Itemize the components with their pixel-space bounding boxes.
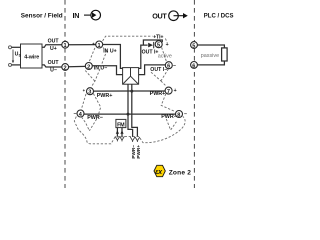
wire IN U+ into isolator	[103, 45, 123, 69]
svg-text:OUT: OUT	[48, 39, 60, 45]
FM pin arrows	[116, 130, 119, 134]
wire OUT U+ from box to terminal 1	[42, 45, 62, 48]
dash into T6 apex	[151, 72, 161, 81]
svg-text:Zone 2: Zone 2	[169, 169, 192, 176]
svg-text:−: −	[73, 111, 76, 117]
terminal 6 device	[165, 62, 172, 69]
sensor terminal top	[9, 46, 12, 49]
svg-text:passive: passive	[201, 53, 219, 59]
terminal 8 device	[176, 111, 183, 118]
4-wire sensor box	[21, 44, 43, 68]
power rail - from isolator	[128, 84, 133, 137]
wire PWR+ T3 to T7	[93, 90, 165, 92]
terminal 4 device	[77, 110, 84, 117]
terminal 6 plc side	[191, 62, 198, 69]
svg-text:IN U+: IN U+	[103, 49, 116, 55]
svg-text:PWR+: PWR+	[150, 91, 166, 97]
svg-text:1: 1	[64, 43, 67, 49]
dash after TI+ to T5	[165, 39, 167, 43]
svg-text:6: 6	[192, 63, 195, 69]
terminal 1 device	[96, 41, 103, 48]
FM box	[116, 119, 126, 127]
svg-text:+TI+: +TI+	[153, 35, 163, 41]
svg-text:OUT: OUT	[48, 60, 60, 66]
wire OUT U- from box to terminal 2	[42, 65, 62, 67]
svg-text:+: +	[166, 42, 169, 48]
wire sensor top to box	[12, 46, 21, 48]
svg-text:6: 6	[167, 64, 170, 70]
svg-text:−: −	[173, 63, 176, 69]
terminal 2 field side	[62, 64, 69, 71]
dash T1-T2	[89, 48, 95, 61]
wire field T1 to device T1	[69, 44, 96, 46]
svg-text:PLC / DCS: PLC / DCS	[204, 13, 234, 19]
svg-text:7: 7	[167, 89, 170, 95]
svg-text:U−: U−	[50, 68, 57, 74]
OUT flow symbol	[169, 11, 188, 21]
terminal 5 device	[155, 41, 162, 48]
svg-text:PWR+: PWR+	[136, 145, 141, 159]
IN flow symbol	[84, 10, 100, 20]
svg-text:OUT I+: OUT I+	[142, 49, 159, 55]
terminal 7 device	[165, 87, 172, 94]
zone separator left (dashed)	[64, 0, 66, 188]
dashed connector outlines	[74, 36, 185, 144]
dash apex to T7	[161, 81, 167, 87]
resistor load	[222, 48, 228, 61]
test jack symbol	[148, 43, 153, 48]
svg-text:2: 2	[87, 64, 90, 70]
svg-text:−: −	[184, 112, 187, 118]
dash T3 right side	[89, 94, 100, 131]
dash T3-T4	[81, 94, 86, 110]
svg-text:IN: IN	[73, 11, 80, 20]
junction PWR+	[130, 90, 133, 93]
svg-text:OUT I−: OUT I−	[150, 67, 167, 73]
svg-text:PWR−: PWR−	[161, 114, 177, 120]
svg-text:U+: U+	[50, 46, 57, 52]
wire OUT I+ from isolator to test jack	[139, 45, 148, 68]
wire IN U- into isolator	[92, 66, 122, 75]
Ex hexagon	[154, 165, 165, 176]
plc load wires	[197, 45, 224, 65]
wire field T2 to device T2	[69, 65, 86, 67]
wire PWR- T4 to T8	[84, 113, 176, 115]
svg-text:8: 8	[177, 112, 180, 118]
dash T4 to V apex	[82, 117, 90, 131]
svg-text:FM: FM	[117, 122, 125, 128]
svg-text:1: 1	[98, 43, 101, 49]
dash T2 to junction	[85, 71, 95, 82]
svg-text:Sensor / Field: Sensor / Field	[21, 13, 63, 20]
terminal 5 plc side	[191, 42, 198, 49]
FM pin lines	[116, 128, 118, 137]
TI+ loop wire	[143, 40, 162, 45]
dash T1 right side	[91, 48, 106, 87]
dash T6 to apex	[161, 69, 169, 81]
power rail + from isolator	[132, 84, 138, 137]
svg-text:OUT: OUT	[152, 12, 167, 21]
dash T5-T6	[162, 47, 167, 61]
svg-text:5: 5	[192, 43, 195, 49]
isolator internal symbol	[123, 68, 138, 84]
bus power sockets	[130, 137, 135, 142]
isolator U1 body	[123, 68, 139, 85]
wire sensor bottom to box	[12, 64, 21, 66]
dash TI+ link	[103, 36, 153, 41]
svg-text:2: 2	[64, 65, 67, 71]
wire OUT I- from isolator to T6	[139, 65, 166, 75]
dash T7-T8 V	[161, 94, 175, 112]
Us arrow	[12, 50, 14, 62]
svg-text:+: +	[174, 88, 177, 94]
sensor terminal bottom	[9, 63, 12, 66]
FM sockets	[115, 136, 120, 141]
terminal 3 device	[87, 88, 94, 95]
svg-text:5: 5	[157, 43, 160, 49]
svg-text:4-wire: 4-wire	[24, 54, 39, 60]
svg-text:3: 3	[88, 90, 91, 96]
dash T8 V	[166, 119, 176, 130]
terminal 2 device	[85, 63, 92, 70]
junction PWR-	[127, 113, 130, 116]
svg-text:PWR+: PWR+	[97, 93, 113, 99]
svg-text:PWR−: PWR−	[87, 115, 103, 121]
dash bottom boundary	[74, 116, 185, 143]
terminal 1 field side	[62, 41, 69, 48]
zone separator right (dashed)	[193, 0, 195, 188]
